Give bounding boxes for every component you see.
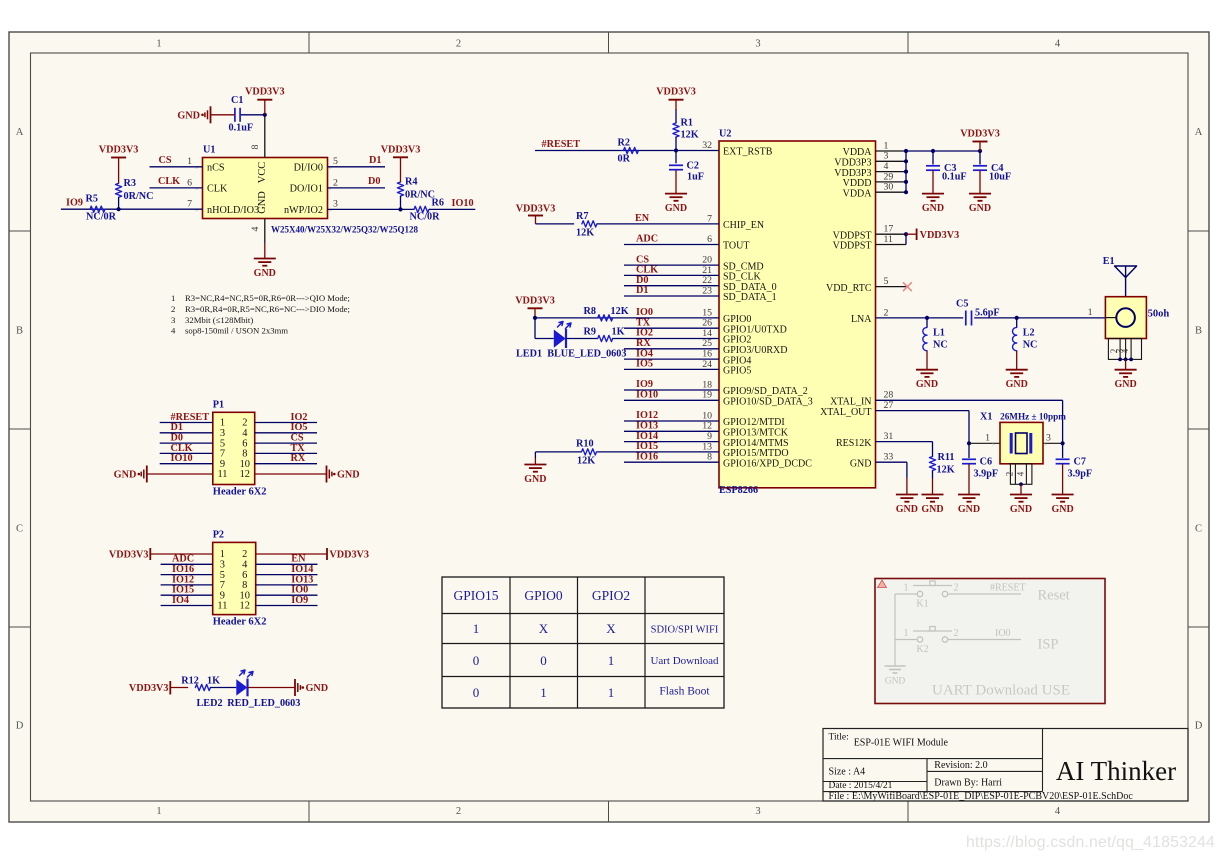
svg-text:C5: C5 [956, 299, 968, 310]
svg-text:0.1uF: 0.1uF [942, 171, 967, 182]
svg-text:D: D [16, 721, 24, 732]
junction crystal left [967, 441, 971, 445]
svg-text:C: C [1195, 524, 1202, 535]
svg-text:6: 6 [187, 177, 192, 188]
svg-text:10uF: 10uF [989, 171, 1011, 182]
svg-text:24: 24 [702, 359, 712, 370]
wire P1 right row 2 [255, 432, 317, 434]
wire R7 to U2 pin 7 [597, 223, 719, 225]
wire D1 to U2 [624, 295, 719, 297]
svg-text:IO5: IO5 [636, 359, 653, 370]
svg-text:1: 1 [156, 39, 161, 50]
svg-text:R3=NC,R4=NC,R5=0R,R6=0R--->QIO: R3=NC,R4=NC,R5=0R,R6=0R--->QIO Mode; [185, 293, 350, 303]
svg-text:VDD3V3: VDD3V3 [99, 145, 139, 156]
svg-text:GND: GND [337, 470, 360, 481]
wire P2 right row 4 [256, 584, 318, 586]
resistor R3 [116, 183, 122, 197]
svg-text:DI/IO0: DI/IO0 [294, 163, 323, 174]
pushbutton K1 [917, 591, 922, 596]
ground below R11 [932, 478, 934, 495]
svg-text:3.9pF: 3.9pF [1068, 469, 1093, 480]
svg-text:CS: CS [159, 155, 172, 166]
svg-text:0: 0 [540, 653, 547, 668]
junction at C3 top [931, 149, 935, 153]
antenna E1 circle [1116, 308, 1135, 327]
svg-text:4: 4 [1055, 39, 1061, 50]
svg-text:CLK: CLK [158, 176, 180, 187]
svg-text:Header 6X2: Header 6X2 [213, 617, 267, 628]
svg-text:1: 1 [473, 621, 480, 636]
svg-text:IO9: IO9 [291, 595, 308, 606]
wire P2 pin 2 to VDD3V3 [256, 553, 327, 555]
junction VDDA pin29 [904, 180, 908, 184]
wire D0 from U1 pin 2 [328, 187, 386, 189]
svg-text:VDD3V3: VDD3V3 [920, 230, 960, 241]
header P2 body [213, 542, 256, 614]
svg-text:»: » [329, 185, 332, 192]
svg-text:IO9: IO9 [66, 197, 83, 208]
svg-text:ISP: ISP [1038, 637, 1059, 653]
svg-text:TX: TX [636, 317, 651, 328]
power VDD3V3 above C4 [973, 141, 988, 143]
svg-text:IO10: IO10 [171, 453, 193, 464]
svg-text:3: 3 [755, 806, 760, 817]
svg-text:P2: P2 [213, 530, 224, 541]
svg-text:X: X [606, 621, 616, 636]
svg-text:8: 8 [250, 144, 261, 149]
svg-text:R2: R2 [618, 138, 630, 149]
power VDD3V3 above R3 [111, 157, 126, 159]
svg-text:GPIO15: GPIO15 [453, 588, 498, 603]
svg-text:7: 7 [707, 213, 712, 224]
wire P1 left row 4 [160, 452, 213, 454]
svg-text:GND: GND [958, 504, 980, 515]
capacitor C4 [973, 165, 987, 167]
wire U2 GND pin 33 [876, 461, 907, 463]
svg-text:12K: 12K [681, 130, 699, 141]
svg-text:nHOLD/IO3: nHOLD/IO3 [207, 205, 259, 216]
svg-text:1: 1 [540, 685, 547, 700]
svg-text:C: C [16, 524, 23, 535]
svg-text:32Mbit (≤128Mbit): 32Mbit (≤128Mbit) [185, 315, 253, 325]
junction VDDA pin4 [904, 170, 908, 174]
wire P1 left row 5 [160, 463, 213, 465]
svg-text:GND: GND [922, 203, 944, 214]
wire P2 left row 3 [161, 574, 213, 576]
power VDD3V3 at P2 pin 2 [326, 548, 328, 560]
svg-text:LED1: LED1 [516, 349, 542, 360]
svg-text:GPIO2: GPIO2 [592, 588, 630, 603]
wire VDDA bus vertical [905, 151, 907, 192]
frame column ticks bottom [308, 801, 310, 822]
wire D0 to U2 [624, 285, 719, 287]
wire P2 right row 6 [256, 605, 318, 607]
wire CS to U2 [624, 264, 719, 266]
frame row ticks left [9, 230, 31, 232]
svg-text:GND: GND [1051, 504, 1073, 515]
title block line above file [823, 791, 1043, 793]
resistor R12 [195, 684, 210, 690]
svg-text:Title:: Title: [829, 733, 849, 743]
junction VDDA pin30 [904, 190, 908, 194]
antenna E1 body [1105, 297, 1146, 339]
svg-text:50oh: 50oh [1148, 308, 1170, 319]
wire P1 right row 5 [255, 463, 317, 465]
svg-text:D1: D1 [369, 155, 381, 166]
wire R10 to ground [534, 452, 536, 458]
svg-text:NC: NC [1023, 340, 1038, 351]
wire IO5 to U2 [624, 368, 719, 370]
frame row ticks right [1188, 230, 1209, 232]
wire P2 left row 5 [161, 594, 213, 596]
capacitor C2 [669, 164, 683, 166]
svg-text:EN: EN [635, 213, 650, 224]
svg-text:Size : A4: Size : A4 [829, 767, 866, 778]
junction antenna gnd 3 [1129, 358, 1133, 362]
svg-text:1: 1 [608, 685, 615, 700]
svg-text:VDD_RTC: VDD_RTC [826, 283, 872, 294]
svg-text:R3: R3 [124, 178, 136, 189]
svg-text:TOUT: TOUT [723, 241, 749, 252]
power VDD3V3 at VDDPST [916, 229, 918, 241]
svg-text:1K: 1K [207, 676, 220, 687]
junction at L2 top [1015, 316, 1019, 320]
diode LED1 [554, 330, 566, 348]
svg-text:12: 12 [240, 469, 250, 480]
svg-text:File : E:\MyWifiBoard\ESP-01E: File : E:\MyWifiBoard\ESP-01E_DIP\ESP-01… [829, 791, 1134, 802]
svg-text:19: 19 [702, 390, 712, 401]
junction VDDA pin1 [904, 149, 908, 153]
capacitor C7 [1062, 443, 1064, 458]
svg-text:12K: 12K [611, 306, 629, 317]
junction VDDPST node [904, 232, 908, 236]
wire LED2 to ground [248, 687, 296, 689]
wire P1 pin 12 to ground [255, 473, 327, 475]
crystal case pins box [1010, 464, 1032, 485]
svg-text:1K: 1K [612, 327, 625, 338]
U2 VDDPST pin stubs [876, 233, 907, 235]
svg-text:33: 33 [884, 452, 894, 463]
ground below L1 [926, 351, 928, 370]
wire R6 to IO10 [429, 208, 475, 210]
svg-text:DO/IO1: DO/IO1 [290, 184, 323, 195]
svg-text:C6: C6 [980, 457, 992, 468]
svg-text:VCC: VCC [257, 162, 268, 183]
capacitor C6 [968, 443, 970, 458]
svg-text:RX: RX [291, 453, 306, 464]
uart gnd bus wire [894, 594, 896, 666]
svg-text:12K: 12K [937, 465, 955, 476]
svg-text:LNA: LNA [851, 314, 872, 325]
title block line under title [823, 758, 1043, 760]
resistor R7 [582, 221, 597, 227]
svg-text:VDD3V3: VDD3V3 [109, 550, 149, 561]
wire P1 right row 3 [255, 442, 317, 444]
svg-text:B: B [1195, 326, 1202, 337]
wire VDDA bus to VDD3V3 [906, 150, 980, 152]
svg-text:0: 0 [473, 653, 480, 668]
wire CLK to U2 [624, 274, 719, 276]
svg-text:31: 31 [884, 431, 894, 442]
wire VDD3V3 to R12 [170, 687, 188, 689]
svg-text:0.1uF: 0.1uF [229, 123, 254, 134]
svg-text:5: 5 [333, 156, 338, 167]
svg-text:R3=0R,R4=0R,R5=NC,R6=NC--->DIO: R3=0R,R4=0R,R5=NC,R6=NC--->DIO Mode; [185, 304, 350, 314]
ground below crystal case [1020, 484, 1022, 494]
svg-text:VDDPST: VDDPST [833, 241, 872, 252]
svg-text:UART Download USE: UART Download USE [932, 683, 1070, 699]
resistor R8 [598, 315, 613, 321]
capacitor C1 [234, 108, 236, 122]
svg-text:R9: R9 [584, 327, 596, 338]
svg-text:VDDA: VDDA [843, 188, 873, 199]
svg-text:0R: 0R [618, 153, 631, 164]
svg-text:C2: C2 [687, 161, 699, 172]
svg-text:K1: K1 [916, 599, 928, 610]
svg-text:1: 1 [904, 583, 909, 594]
wire GND to C1 [211, 114, 235, 116]
wire IO16 to U2 [624, 461, 719, 463]
svg-text:VDD3V3: VDD3V3 [381, 144, 421, 155]
wire P1 right row 1 [255, 422, 317, 424]
ground below C7 [1062, 464, 1064, 495]
svg-text:1: 1 [1088, 307, 1093, 318]
ground below C2 [675, 170, 677, 194]
LED1 emission arrows [558, 322, 564, 328]
ground in uart box [885, 665, 906, 667]
svg-text:D: D [1195, 721, 1203, 732]
power ground P1 right [326, 466, 328, 483]
svg-text:K2: K2 [916, 644, 928, 655]
svg-text:NC/0R: NC/0R [86, 212, 117, 223]
svg-text:7: 7 [187, 199, 192, 210]
junction at C4 top [978, 149, 982, 153]
svg-text:1: 1 [985, 432, 990, 443]
wire CS to U1 pin 1 [150, 166, 203, 168]
wire P2 right row 5 [256, 594, 318, 596]
wire D1 from U1 pin 5 [328, 166, 386, 168]
svg-text:26MHz ± 10ppm: 26MHz ± 10ppm [1000, 412, 1066, 422]
svg-text:GND: GND [850, 458, 872, 469]
resistor R4 [397, 182, 403, 196]
resistor R5 [90, 206, 105, 212]
svg-text:GPIO10/SD_DATA_3: GPIO10/SD_DATA_3 [723, 397, 813, 408]
svg-text:GND: GND [1114, 379, 1136, 390]
svg-text:https://blog.csdn.net/qq_41853: https://blog.csdn.net/qq_41853244 [966, 834, 1215, 851]
svg-text:12: 12 [240, 601, 250, 612]
wire IO13 to U2 [624, 430, 719, 432]
svg-text:2: 2 [456, 806, 461, 817]
svg-text:1: 1 [171, 293, 175, 303]
svg-text:Header 6X2: Header 6X2 [213, 487, 267, 498]
junction LED1 node [533, 316, 537, 320]
antenna E1 ground pin lines [1119, 339, 1121, 360]
svg-text:GND: GND [114, 470, 137, 481]
wire RX to U2 [624, 348, 719, 350]
antenna E1 ground pins box [1108, 339, 1141, 360]
svg-text:SD_DATA_1: SD_DATA_1 [723, 292, 777, 303]
uart box corner marker [878, 580, 887, 588]
capacitor C5 [965, 311, 967, 326]
svg-text:sop8-150mil / USON 2x3mm: sop8-150mil / USON 2x3mm [185, 326, 288, 336]
svg-text:VDD3V3: VDD3V3 [129, 683, 169, 694]
wire EXT_RSTB node to C2 [675, 151, 677, 164]
resistor R1 [673, 123, 679, 137]
wire P2 left row 2 [161, 563, 213, 565]
svg-text:IO16: IO16 [636, 451, 658, 462]
svg-text:2: 2 [954, 583, 959, 594]
svg-text:L2: L2 [1023, 328, 1035, 339]
svg-text:GND: GND [885, 677, 906, 687]
svg-text:R11: R11 [938, 452, 955, 463]
svg-text:12K: 12K [576, 228, 594, 239]
svg-text:1: 1 [156, 806, 161, 817]
svg-text:#RESET: #RESET [542, 139, 581, 150]
diode LED2 [236, 679, 247, 695]
junction crystal right [1061, 441, 1065, 445]
svg-text:VDD3V3: VDD3V3 [960, 129, 1000, 140]
svg-text:XTAL_OUT: XTAL_OUT [820, 407, 871, 418]
ground below antenna [1125, 359, 1127, 369]
wire VDD3V3 to R7 [536, 223, 575, 225]
wire IO0 net [535, 317, 719, 319]
svg-text:1: 1 [608, 653, 615, 668]
svg-text:4: 4 [171, 326, 176, 336]
junction crystal case [1019, 482, 1023, 486]
svg-text:30: 30 [884, 182, 894, 193]
resistor R9 [598, 335, 613, 341]
svg-text:23: 23 [702, 285, 712, 296]
wire R9 to U2 pin 14 [613, 338, 719, 340]
U2 VDD_RTC pin stub [876, 286, 907, 288]
wire C5 to antenna E1 [974, 317, 1105, 319]
svg-text:3: 3 [755, 39, 760, 50]
svg-text:0R/NC: 0R/NC [124, 191, 154, 202]
svg-text:1uF: 1uF [687, 172, 704, 183]
svg-text:NC/0R: NC/0R [410, 211, 441, 222]
ESP8266 chip U2 body [719, 141, 876, 488]
ground below L2 [1016, 351, 1018, 370]
no-connect cross at VDD_RTC [903, 283, 911, 291]
svg-text:5: 5 [884, 276, 889, 287]
wire P1 right row 4 [255, 452, 317, 454]
svg-text:3.9pF: 3.9pF [974, 469, 999, 480]
svg-text:VDD3V3: VDD3V3 [516, 204, 556, 215]
svg-text:RES12K: RES12K [836, 438, 872, 449]
gpio table grid [442, 577, 724, 708]
title block line under revision [927, 770, 1043, 772]
svg-text:ESP8266: ESP8266 [719, 485, 758, 496]
wire P2 right row 3 [256, 574, 318, 576]
wire U1 pin 3 to R6 [328, 208, 415, 210]
wire P2 right row 2 [256, 563, 318, 565]
svg-text:»: » [195, 207, 198, 214]
junction at L1 top [925, 316, 929, 320]
svg-text:R1: R1 [681, 118, 693, 129]
svg-text:GND: GND [257, 191, 268, 214]
wire IO4 to U2 [624, 358, 719, 360]
svg-text:C7: C7 [1074, 457, 1086, 468]
svg-text:GND: GND [921, 504, 943, 515]
svg-text:nCS: nCS [207, 163, 225, 174]
flash chip U1 body [203, 158, 328, 219]
title block divider size/revision [926, 759, 928, 792]
svg-text:GPIO5: GPIO5 [723, 366, 751, 377]
svg-text:3: 3 [171, 315, 175, 325]
svg-text:L1: L1 [933, 328, 945, 339]
capacitor C3 [926, 165, 940, 167]
svg-text:IO10: IO10 [636, 390, 658, 401]
svg-text:X1: X1 [980, 412, 992, 423]
svg-text:GND: GND [254, 268, 276, 279]
svg-text:R4: R4 [405, 177, 417, 188]
svg-text:»: » [195, 185, 198, 192]
pushbutton K2 [917, 637, 922, 642]
svg-text:2: 2 [333, 177, 338, 188]
power ground at LED2 [294, 679, 296, 696]
svg-text:2: 2 [456, 39, 461, 50]
frame column ticks top [308, 32, 310, 53]
wire R12 to LED2 [210, 687, 236, 689]
svg-text:R10: R10 [576, 439, 594, 450]
resistor R11 [932, 442, 934, 457]
wire XTAL_IN to crystal [876, 399, 1063, 401]
svg-text:11: 11 [217, 469, 227, 480]
wire P1 pin 11 to ground [147, 473, 213, 475]
svg-text:GND: GND [306, 683, 329, 694]
svg-text:GND: GND [177, 110, 200, 121]
ground at U2 pin 33 [906, 478, 908, 495]
svg-text:IO0: IO0 [995, 628, 1011, 639]
svg-text:4: 4 [1120, 348, 1130, 353]
ground below C6 [968, 464, 970, 495]
svg-text:11: 11 [217, 601, 227, 612]
svg-text:VDD3V3: VDD3V3 [515, 296, 555, 307]
svg-text:6: 6 [707, 234, 712, 245]
inductor L1 [926, 318, 928, 328]
svg-text:4: 4 [250, 226, 261, 231]
svg-text:4: 4 [1055, 806, 1061, 817]
svg-text:W25X40/W25X32/W25Q32/W25Q128: W25X40/W25X32/W25Q32/W25Q128 [271, 225, 419, 235]
resistor R2 [623, 147, 638, 153]
svg-text:R6: R6 [432, 198, 444, 209]
ground below C3 [932, 170, 934, 193]
wire ADC to U2 [624, 244, 719, 246]
wire P2 left row 6 [161, 605, 213, 607]
crystal X1 plates [1010, 433, 1013, 454]
crystal case pin lines [1014, 464, 1016, 485]
wire IO14 to U2 [624, 441, 719, 443]
svg-text:2: 2 [1004, 472, 1014, 477]
svg-text:Reset: Reset [1038, 588, 1070, 604]
svg-text:CLK: CLK [207, 184, 228, 195]
antenna E1 symbol [1125, 266, 1127, 297]
power VDD3V3 above R1 [669, 99, 684, 101]
svg-text:12K: 12K [577, 455, 595, 466]
svg-text:P1: P1 [213, 400, 224, 411]
svg-text:IO4: IO4 [172, 595, 189, 606]
ground at R10 [534, 458, 536, 465]
wire LED1 to R9 [566, 338, 598, 340]
svg-text:RED_LED_0603: RED_LED_0603 [227, 698, 300, 709]
svg-text:5.6pF: 5.6pF [975, 308, 1000, 319]
power VDD3V3 above R4 [393, 156, 408, 158]
crystal X1 body [1000, 422, 1043, 463]
svg-text:Revision: 2.0: Revision: 2.0 [934, 760, 987, 771]
svg-text:GND: GND [896, 504, 918, 515]
wire IO9 to U1 pin 7 [61, 208, 203, 210]
svg-text:IO15: IO15 [636, 441, 658, 452]
